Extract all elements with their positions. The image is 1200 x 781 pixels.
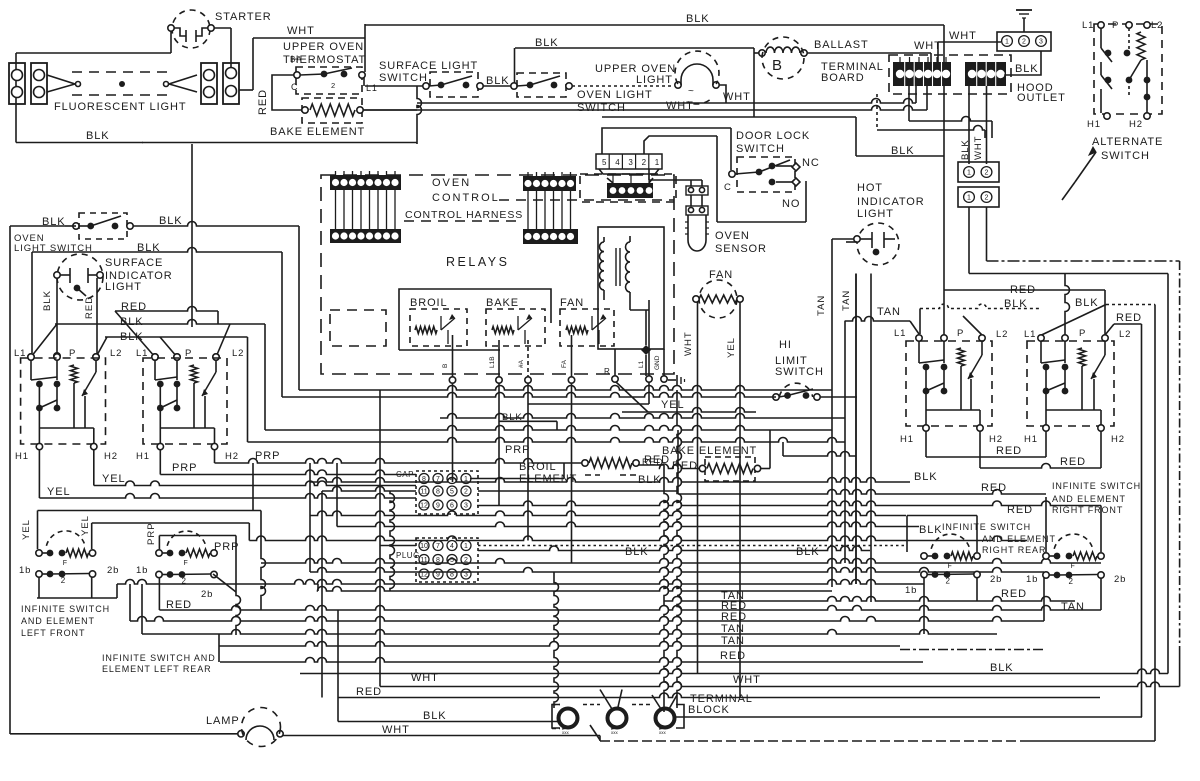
svg-text:L1: L1 xyxy=(1024,329,1036,340)
svg-text:YEL: YEL xyxy=(21,519,32,540)
svg-text:SURFACE: SURFACE xyxy=(105,257,163,269)
svg-text:WHT: WHT xyxy=(723,91,751,103)
svg-text:YEL: YEL xyxy=(80,515,91,536)
svg-text:SWITCH: SWITCH xyxy=(736,143,785,155)
svg-text:1: 1 xyxy=(967,195,971,202)
svg-text:RED: RED xyxy=(1060,456,1086,468)
svg-text:2: 2 xyxy=(464,489,468,496)
svg-text:RED: RED xyxy=(996,445,1022,457)
svg-text:OVEN LIGHT: OVEN LIGHT xyxy=(577,89,653,101)
svg-text:F: F xyxy=(948,563,952,570)
svg-text:TAN: TAN xyxy=(816,295,827,316)
svg-text:WHT: WHT xyxy=(973,136,984,160)
svg-text:NO: NO xyxy=(782,198,800,210)
svg-text:R: R xyxy=(604,367,610,376)
svg-text:ALTERNATE: ALTERNATE xyxy=(1092,136,1163,148)
svg-text:2b: 2b xyxy=(1114,574,1126,585)
svg-text:10: 10 xyxy=(420,543,428,550)
svg-text:LIGHT: LIGHT xyxy=(857,208,894,220)
svg-text:~: ~ xyxy=(688,86,695,97)
svg-text:BAKE: BAKE xyxy=(486,297,519,309)
svg-text:8: 8 xyxy=(436,489,440,496)
svg-text:2b: 2b xyxy=(107,565,119,576)
svg-text:BLK: BLK xyxy=(686,13,710,25)
svg-text:TAN: TAN xyxy=(841,290,852,311)
svg-text:BLOCK: BLOCK xyxy=(688,704,730,716)
svg-text:PRP: PRP xyxy=(255,450,280,462)
svg-text:UPPER OVEN: UPPER OVEN xyxy=(283,41,364,53)
svg-text:1b: 1b xyxy=(19,565,31,576)
svg-text:P: P xyxy=(957,328,964,339)
svg-text:RIGHT FRONT: RIGHT FRONT xyxy=(1052,505,1123,515)
svg-text:BLK: BLK xyxy=(159,215,183,227)
svg-text:H1: H1 xyxy=(1024,434,1038,445)
svg-text:SWITCH: SWITCH xyxy=(1101,150,1150,162)
svg-text:WHT: WHT xyxy=(382,724,410,736)
svg-text:SWITCH: SWITCH xyxy=(379,72,428,84)
svg-text:PRP: PRP xyxy=(172,462,197,474)
svg-text:2: 2 xyxy=(946,577,951,586)
svg-text:2b: 2b xyxy=(201,589,213,600)
svg-text:RED: RED xyxy=(356,686,382,698)
svg-text:YEL: YEL xyxy=(661,399,685,411)
svg-text:WHT: WHT xyxy=(949,30,977,42)
svg-text:1b: 1b xyxy=(1026,574,1038,585)
svg-text:YEL: YEL xyxy=(726,337,737,358)
svg-text:TAN: TAN xyxy=(877,306,901,318)
svg-text:WHT: WHT xyxy=(733,674,761,686)
svg-text:3: 3 xyxy=(628,158,633,167)
svg-text:OVEN: OVEN xyxy=(432,177,471,189)
svg-text:H2: H2 xyxy=(989,434,1003,445)
svg-text:LEFT FRONT: LEFT FRONT xyxy=(21,628,85,638)
svg-text:BLK: BLK xyxy=(137,242,161,254)
svg-text:RED: RED xyxy=(720,650,746,662)
svg-text:INFINITE SWITCH: INFINITE SWITCH xyxy=(942,522,1031,532)
svg-text:PRP: PRP xyxy=(146,522,157,545)
svg-text:1: 1 xyxy=(1005,39,1009,46)
svg-text:HI: HI xyxy=(779,339,792,351)
svg-text:RED: RED xyxy=(84,296,95,319)
svg-text:FAN: FAN xyxy=(709,269,733,281)
svg-text:CONTROL HARNESS: CONTROL HARNESS xyxy=(405,209,523,221)
svg-text:L2: L2 xyxy=(1119,329,1131,340)
svg-text:BLK: BLK xyxy=(1015,63,1039,75)
svg-text:YEL: YEL xyxy=(47,486,71,498)
svg-text:L2: L2 xyxy=(110,348,122,359)
svg-text:AND ELEMENT: AND ELEMENT xyxy=(982,534,1056,544)
svg-text:OUTLET: OUTLET xyxy=(1017,92,1066,104)
svg-text:STARTER: STARTER xyxy=(215,11,272,23)
svg-text:BLK: BLK xyxy=(423,710,447,722)
svg-text:C: C xyxy=(291,82,298,92)
svg-text:BLK: BLK xyxy=(42,290,53,311)
svg-text:2: 2 xyxy=(1022,39,1026,46)
svg-text:H2: H2 xyxy=(104,451,118,462)
svg-text:NC: NC xyxy=(802,157,820,169)
svg-text:CONTROL: CONTROL xyxy=(432,192,500,204)
svg-text:1b: 1b xyxy=(136,565,148,576)
svg-text:2: 2 xyxy=(642,158,647,167)
svg-text:P: P xyxy=(1112,20,1119,31)
svg-text:WHT: WHT xyxy=(411,672,439,684)
svg-text:C: C xyxy=(724,182,732,193)
svg-text:P: P xyxy=(1079,328,1086,339)
svg-text:BROIL: BROIL xyxy=(519,461,557,473)
svg-text:SENSOR: SENSOR xyxy=(715,243,767,255)
svg-text:9: 9 xyxy=(436,503,440,510)
svg-text:AND ELEMENT: AND ELEMENT xyxy=(21,616,95,626)
svg-text:BLK: BLK xyxy=(990,662,1014,674)
svg-text:H1: H1 xyxy=(136,451,150,462)
svg-text:B: B xyxy=(442,364,449,368)
svg-text:xxx: xxx xyxy=(562,730,570,735)
svg-text:BLK: BLK xyxy=(638,474,662,486)
svg-text:BALLAST: BALLAST xyxy=(814,39,869,51)
svg-text:11: 11 xyxy=(420,489,427,496)
svg-text:YEL: YEL xyxy=(102,473,126,485)
svg-text:L2: L2 xyxy=(232,348,244,359)
svg-text:BOARD: BOARD xyxy=(821,72,865,84)
svg-text:H1: H1 xyxy=(900,434,914,445)
svg-text:1: 1 xyxy=(655,158,660,167)
svg-text:WHT: WHT xyxy=(287,25,315,37)
svg-text:RED: RED xyxy=(981,482,1007,494)
svg-text:LAMP: LAMP xyxy=(206,715,240,727)
svg-text:RED: RED xyxy=(1001,588,1027,600)
svg-text:INFINITE SWITCH AND: INFINITE SWITCH AND xyxy=(102,653,216,663)
svg-text:ELEMENT LEFT REAR: ELEMENT LEFT REAR xyxy=(102,664,212,674)
svg-text:BLK: BLK xyxy=(86,130,110,142)
svg-text:RED: RED xyxy=(1116,312,1142,324)
svg-text:LIGHT: LIGHT xyxy=(105,281,142,293)
svg-text:LIGHT: LIGHT xyxy=(636,74,673,86)
svg-text:WHT: WHT xyxy=(683,331,694,356)
svg-text:7: 7 xyxy=(436,543,440,550)
svg-text:5: 5 xyxy=(450,489,454,496)
svg-text:L1: L1 xyxy=(894,328,906,339)
svg-text:BA: BA xyxy=(290,55,302,64)
svg-text:RELAYS: RELAYS xyxy=(446,255,509,269)
svg-text:xxx: xxx xyxy=(611,730,619,735)
svg-text:AND ELEMENT: AND ELEMENT xyxy=(1052,494,1126,504)
svg-text:3: 3 xyxy=(1039,39,1043,46)
svg-text:FAN: FAN xyxy=(560,297,584,309)
svg-text:RED: RED xyxy=(1010,284,1036,296)
svg-text:BLK: BLK xyxy=(796,546,820,558)
svg-text:H1: H1 xyxy=(15,451,29,462)
svg-text:F: F xyxy=(63,560,67,567)
svg-text:INFINITE SWITCH: INFINITE SWITCH xyxy=(21,604,110,614)
svg-text:FLUORESCENT LIGHT: FLUORESCENT LIGHT xyxy=(54,101,186,113)
svg-text:H2: H2 xyxy=(1111,434,1125,445)
svg-text:2: 2 xyxy=(1069,577,1074,586)
svg-text:xxx: xxx xyxy=(659,730,667,735)
svg-text:BAKE ELEMENT: BAKE ELEMENT xyxy=(270,126,365,138)
svg-text:BLK: BLK xyxy=(1004,298,1028,310)
svg-text:1: 1 xyxy=(464,543,468,550)
svg-text:SWITCH: SWITCH xyxy=(775,366,824,378)
svg-text:INDICATOR: INDICATOR xyxy=(857,196,925,208)
svg-text:BLK: BLK xyxy=(486,75,510,87)
svg-text:2: 2 xyxy=(61,576,66,585)
svg-text:BROIL: BROIL xyxy=(410,297,448,309)
svg-text:L1: L1 xyxy=(638,360,645,368)
svg-text:L2: L2 xyxy=(996,329,1008,340)
svg-text:1: 1 xyxy=(967,170,971,177)
svg-text:HOT: HOT xyxy=(857,182,883,194)
svg-text:3: 3 xyxy=(464,503,468,510)
svg-text:L2: L2 xyxy=(1151,20,1163,31)
svg-text:CAP: CAP xyxy=(396,470,414,479)
svg-text:TAN: TAN xyxy=(1061,601,1085,613)
svg-text:L1: L1 xyxy=(1082,20,1094,31)
svg-text:PRP: PRP xyxy=(505,444,530,456)
svg-text:12: 12 xyxy=(420,503,428,510)
svg-text:2: 2 xyxy=(985,195,989,202)
svg-text:H2: H2 xyxy=(225,451,239,462)
svg-text:H2: H2 xyxy=(1129,119,1143,130)
svg-text:2b: 2b xyxy=(990,574,1002,585)
svg-text:4: 4 xyxy=(450,543,454,550)
svg-text:GND: GND xyxy=(654,355,661,370)
svg-text:BLK: BLK xyxy=(914,471,938,483)
svg-text:2: 2 xyxy=(182,577,187,586)
svg-text:6: 6 xyxy=(450,503,454,510)
svg-text:B: B xyxy=(772,57,783,74)
svg-text:#A: #A xyxy=(518,359,525,368)
svg-text:DOOR LOCK: DOOR LOCK xyxy=(736,130,810,142)
svg-text:PRP: PRP xyxy=(214,541,239,553)
svg-text:F: F xyxy=(1071,563,1075,570)
svg-text:RED: RED xyxy=(257,89,269,115)
svg-text:5: 5 xyxy=(602,158,607,167)
svg-text:RED: RED xyxy=(672,460,698,472)
svg-text:INFINITE SWITCH: INFINITE SWITCH xyxy=(1052,481,1141,491)
svg-text:OVEN: OVEN xyxy=(715,230,750,242)
svg-text:F: F xyxy=(184,560,188,567)
svg-text:2: 2 xyxy=(985,170,989,177)
svg-text:1b: 1b xyxy=(905,585,917,596)
svg-text:BLK: BLK xyxy=(919,524,943,536)
svg-text:4: 4 xyxy=(615,158,620,167)
svg-text:2: 2 xyxy=(331,81,336,90)
svg-text:BLK: BLK xyxy=(1075,297,1099,309)
svg-text:FA: FA xyxy=(561,359,568,368)
svg-text:H1: H1 xyxy=(1087,119,1101,130)
svg-text:BLK: BLK xyxy=(625,546,649,558)
svg-text:SURFACE LIGHT: SURFACE LIGHT xyxy=(379,60,478,72)
svg-text:L1: L1 xyxy=(366,83,378,93)
svg-text:RIGHT REAR: RIGHT REAR xyxy=(982,545,1046,555)
svg-text:L1B: L1B xyxy=(489,356,496,368)
svg-text:RED: RED xyxy=(1007,504,1033,516)
